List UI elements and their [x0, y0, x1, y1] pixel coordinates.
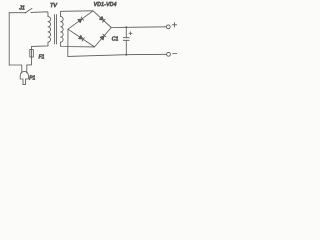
diode VD bottom-left	[79, 35, 85, 41]
transformer core	[55, 15, 57, 44]
node junction plus rail / C1	[125, 26, 127, 28]
diode VD bottom-right	[100, 34, 106, 40]
capacitor polarity plus	[129, 32, 132, 35]
wire left rail to plug left prong	[9, 65, 22, 73]
wire plus rail from bridge right corner to output	[111, 26, 166, 29]
wire DC minus from bridge left corner down	[67, 29, 69, 56]
wire left rail from plug up to top	[8, 13, 10, 65]
wire minus rail to output	[68, 54, 167, 56]
svg-text:TV: TV	[50, 3, 58, 9]
node junction minus rail / C1	[125, 54, 127, 56]
diode VD top-left	[78, 17, 84, 23]
wire switch to transformer primary top	[31, 12, 48, 17]
wire secondary top to bridge top corner	[61, 11, 93, 17]
output terminal minus	[167, 52, 171, 56]
svg-text:F1: F1	[39, 55, 45, 61]
capacitor C1	[123, 27, 129, 54]
svg-text:VD1-VD4: VD1-VD4	[94, 2, 117, 8]
diode VD top-right	[99, 16, 105, 22]
label minus	[173, 53, 177, 55]
wire fuse to plug right prong	[27, 57, 32, 73]
transformer TV primary winding	[48, 17, 51, 42]
wire primary bottom to fuse	[32, 42, 49, 49]
svg-text:C1: C1	[112, 36, 119, 42]
switch J1	[25, 8, 32, 13]
fuse F1	[30, 49, 34, 57]
output terminal plus	[166, 25, 170, 29]
wire top rail to switch left contact	[9, 12, 25, 14]
svg-text:P1: P1	[29, 75, 35, 81]
transformer secondary winding	[61, 17, 64, 42]
wire secondary bottom to bridge bottom corner	[61, 42, 95, 47]
svg-text:J1: J1	[18, 5, 25, 11]
label plus	[172, 23, 177, 28]
plug P1	[20, 71, 28, 84]
bridge diamond sides VD1-VD4	[68, 11, 111, 47]
